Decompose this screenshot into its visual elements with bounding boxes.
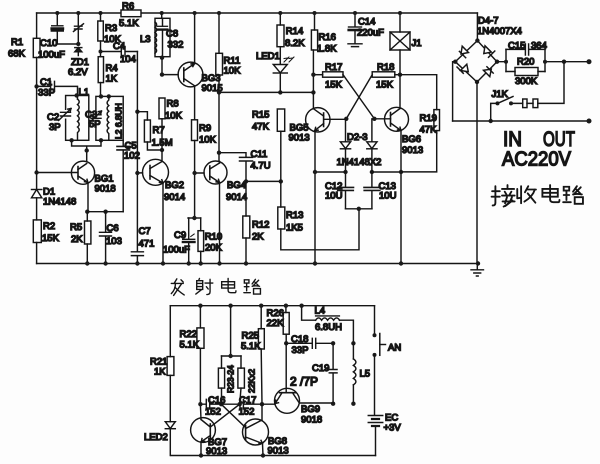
svg-text:2 /7P: 2 /7P bbox=[290, 375, 318, 389]
svg-text:R25: R25 bbox=[242, 331, 259, 342]
capacitor C17 bbox=[239, 395, 257, 418]
resistor R7 bbox=[135, 110, 173, 153]
svg-text:R7: R7 bbox=[153, 125, 165, 136]
svg-text:D2-3: D2-3 bbox=[347, 132, 368, 143]
svg-text:1N4148X2: 1N4148X2 bbox=[337, 157, 382, 168]
svg-text:471: 471 bbox=[139, 239, 155, 250]
resistor R22 bbox=[180, 304, 205, 405]
capacitor C5 bbox=[117, 140, 140, 211]
LED LED1 bbox=[256, 51, 294, 95]
capacitor C6 bbox=[100, 212, 122, 266]
transistor BG4 bbox=[192, 161, 247, 266]
svg-text:6.2V: 6.2V bbox=[68, 67, 88, 78]
svg-text:15K: 15K bbox=[325, 80, 343, 91]
svg-text:BG6: BG6 bbox=[402, 134, 421, 145]
svg-text:AN: AN bbox=[388, 343, 401, 354]
svg-text:R18: R18 bbox=[377, 62, 394, 73]
svg-text:1N4148: 1N4148 bbox=[43, 197, 76, 208]
svg-text:9013: 9013 bbox=[402, 145, 423, 156]
svg-text:R3: R3 bbox=[105, 23, 117, 34]
svg-text:R13: R13 bbox=[286, 210, 303, 221]
svg-text:R15: R15 bbox=[252, 110, 269, 121]
svg-text:AC220V: AC220V bbox=[502, 149, 572, 171]
transistor BG9 bbox=[275, 343, 334, 425]
resistor R3 bbox=[98, 13, 122, 57]
ground symbol bbox=[471, 264, 484, 277]
capacitor C12 bbox=[325, 172, 354, 209]
wire bridge bottom to ground rail bbox=[476, 82, 478, 264]
svg-text:C9: C9 bbox=[174, 230, 186, 241]
transistor BG5 bbox=[289, 108, 349, 266]
svg-text:1.8K: 1.8K bbox=[317, 44, 337, 55]
svg-text:C1: C1 bbox=[40, 77, 52, 88]
resistor R5 bbox=[70, 212, 91, 266]
resistor R2 bbox=[33, 220, 59, 244]
svg-text:BG4: BG4 bbox=[227, 180, 246, 191]
svg-text:332: 332 bbox=[168, 40, 184, 51]
pushbutton AN bbox=[373, 306, 402, 416]
character 电 bbox=[542, 185, 559, 202]
svg-text:L3: L3 bbox=[140, 34, 151, 45]
svg-text:47K: 47K bbox=[252, 122, 270, 133]
svg-text:R23-24: R23-24 bbox=[226, 365, 236, 393]
wire cross-coupling R17 to BG6 base bbox=[343, 75, 374, 119]
svg-text:15K: 15K bbox=[376, 80, 394, 91]
character 电 bbox=[222, 278, 236, 292]
svg-text:L2 6.8UH: L2 6.8UH bbox=[114, 103, 124, 139]
character 接 bbox=[492, 185, 515, 206]
capacitor C19 bbox=[290, 343, 337, 406]
svg-text:20K: 20K bbox=[205, 243, 223, 254]
svg-text:220uF: 220uF bbox=[357, 28, 384, 39]
resistor R26 bbox=[267, 304, 290, 344]
resistor R1 bbox=[8, 13, 40, 86]
resistor R21 bbox=[150, 306, 174, 422]
svg-text:C17: C17 bbox=[239, 395, 256, 406]
svg-text:22Kx2: 22Kx2 bbox=[247, 369, 257, 393]
svg-text:33P: 33P bbox=[38, 88, 55, 99]
label 发射电路 (transmitter circuit) bbox=[171, 278, 260, 295]
svg-text:300K: 300K bbox=[515, 76, 538, 87]
svg-text:LED1: LED1 bbox=[256, 51, 280, 62]
capacitor C7 bbox=[131, 173, 154, 266]
transistor BG7 bbox=[191, 404, 228, 457]
svg-text:L1: L1 bbox=[79, 87, 90, 98]
resistor R14 bbox=[277, 11, 305, 64]
capacitor C4 bbox=[99, 41, 138, 65]
capacitor C16 bbox=[205, 395, 225, 418]
capacitor C11 bbox=[217, 149, 271, 184]
resistor R9 bbox=[192, 120, 217, 218]
resistors R23-24 pair bbox=[218, 304, 256, 405]
svg-text:152: 152 bbox=[239, 407, 255, 418]
wire bridge left to lower out rail bbox=[453, 62, 456, 121]
wire multivibrator coupling row bbox=[198, 402, 274, 406]
svg-text:2K: 2K bbox=[252, 232, 264, 243]
svg-text:6.8UH: 6.8UH bbox=[315, 322, 342, 333]
svg-text:364: 364 bbox=[531, 41, 547, 52]
svg-text:C15: C15 bbox=[508, 41, 525, 52]
svg-text:4.7U: 4.7U bbox=[251, 161, 271, 172]
svg-text:9013: 9013 bbox=[289, 133, 310, 144]
svg-text:R17: R17 bbox=[325, 62, 342, 73]
svg-text:R2: R2 bbox=[43, 221, 55, 232]
svg-text:R22: R22 bbox=[180, 329, 197, 340]
character 收 bbox=[517, 186, 536, 203]
resistor R16 bbox=[311, 11, 337, 108]
svg-text:D4-7: D4-7 bbox=[478, 16, 499, 27]
tank L1 / C2 bbox=[47, 87, 89, 140]
svg-text:8.2K: 8.2K bbox=[285, 38, 305, 49]
resistor R18 bbox=[372, 62, 402, 91]
svg-text:R16: R16 bbox=[319, 32, 336, 43]
svg-text:2K: 2K bbox=[71, 234, 83, 245]
capacitor C13 bbox=[364, 172, 397, 209]
svg-text:103: 103 bbox=[106, 236, 122, 247]
svg-text:R4: R4 bbox=[106, 63, 118, 74]
diode D1 bbox=[32, 187, 77, 208]
svg-text:C19: C19 bbox=[312, 363, 329, 374]
wire C4 node down to BG2 base bbox=[136, 52, 138, 174]
svg-text:5.1K: 5.1K bbox=[241, 341, 261, 352]
svg-text:J1: J1 bbox=[412, 38, 422, 49]
svg-text:C7: C7 bbox=[139, 226, 151, 237]
svg-text:R5: R5 bbox=[70, 222, 82, 233]
svg-text:9013: 9013 bbox=[268, 446, 289, 457]
resistor R17 bbox=[311, 62, 343, 91]
wire lower out rail bbox=[453, 119, 592, 124]
wire left column bbox=[36, 86, 38, 263]
svg-text:LED2: LED2 bbox=[144, 432, 168, 443]
svg-text:R20: R20 bbox=[517, 57, 534, 68]
svg-text:+3V: +3V bbox=[384, 423, 402, 434]
tank L3 / C8 bbox=[140, 13, 183, 57]
wire BG1 emitter node bbox=[85, 210, 123, 214]
LED LED2 bbox=[144, 422, 175, 456]
svg-text:10U: 10U bbox=[325, 191, 343, 202]
svg-text:5P: 5P bbox=[89, 119, 101, 130]
transistor BG3 bbox=[178, 11, 223, 120]
wire top rail corner to bridge bbox=[476, 13, 478, 41]
capacitor C9 bbox=[163, 218, 195, 266]
svg-text:10K: 10K bbox=[199, 135, 217, 146]
transistor BG8 bbox=[243, 404, 289, 457]
wire tank outputs to BG1 collector bbox=[69, 138, 103, 161]
capacitor C9 and resistor R10 top bar bbox=[188, 216, 201, 220]
wire receiver ground rail bbox=[37, 263, 478, 265]
diode D2 bbox=[340, 119, 350, 174]
resistor R12 bbox=[243, 181, 270, 265]
svg-text:R9: R9 bbox=[199, 123, 211, 134]
capacitor C18 bbox=[284, 334, 335, 356]
svg-text:15K: 15K bbox=[42, 233, 60, 244]
resistor R10 bbox=[198, 218, 223, 266]
resistor R25 bbox=[241, 304, 264, 405]
svg-text:C8: C8 bbox=[166, 29, 178, 40]
inductor L5 bbox=[351, 343, 370, 406]
svg-text:R12: R12 bbox=[252, 220, 269, 231]
resistor R8 bbox=[159, 98, 183, 150]
character 发 bbox=[171, 279, 184, 296]
label 接收电路 (receiver circuit) bbox=[492, 185, 583, 206]
wire C12/C13 common tap bbox=[346, 207, 372, 211]
wire BG5 emitter to D2 node bbox=[315, 171, 346, 173]
zener diode ZD1 bbox=[68, 11, 89, 78]
svg-text:C10: C10 bbox=[40, 38, 57, 49]
character 路 bbox=[244, 279, 261, 294]
character 射 bbox=[196, 278, 213, 294]
transistor BG2 bbox=[135, 150, 185, 266]
svg-text:68K: 68K bbox=[8, 49, 26, 60]
svg-text:9013: 9013 bbox=[206, 446, 227, 457]
svg-text:10K: 10K bbox=[165, 111, 183, 122]
svg-text:R8: R8 bbox=[167, 99, 179, 110]
svg-text:C16: C16 bbox=[208, 395, 225, 406]
tank L2 / C3 bbox=[85, 94, 124, 140]
svg-text:C14: C14 bbox=[358, 17, 375, 28]
svg-text:100uF: 100uF bbox=[163, 245, 190, 256]
resistor R13 bbox=[278, 181, 359, 249]
capacitor C15 / resistor R20 block bbox=[497, 41, 592, 88]
wire D3 node to BG6 emitter bbox=[372, 171, 401, 173]
svg-text:BG9: BG9 bbox=[301, 404, 320, 415]
svg-text:10U: 10U bbox=[379, 191, 397, 202]
resistor R19 bbox=[400, 75, 440, 172]
capacitor C14 bbox=[348, 11, 384, 47]
wire R11 node across to BG5 collector bbox=[217, 90, 316, 94]
bridge rectifier D4-7 bbox=[453, 16, 522, 85]
wire cross-coupling R18 to BG5 base bbox=[346, 75, 372, 119]
wire C8 tank to BG3 base bbox=[160, 56, 178, 77]
svg-text:J1K: J1K bbox=[492, 89, 509, 100]
svg-text:C4: C4 bbox=[113, 41, 125, 52]
svg-text:BG2: BG2 bbox=[165, 180, 184, 191]
svg-text:1.5M: 1.5M bbox=[152, 138, 173, 149]
battery EC bbox=[368, 413, 401, 456]
svg-text:9018: 9018 bbox=[301, 415, 322, 426]
svg-text:R10: R10 bbox=[205, 232, 222, 243]
wire cross-coupling C17 to BG7 base bbox=[211, 404, 240, 426]
svg-text:3P: 3P bbox=[49, 122, 61, 133]
svg-text:1K5: 1K5 bbox=[286, 223, 303, 234]
svg-text:9014: 9014 bbox=[226, 192, 247, 203]
wire top supply rail bbox=[37, 12, 478, 14]
character 路 bbox=[563, 186, 583, 204]
diode D3 bbox=[337, 119, 382, 174]
resistor R4 bbox=[98, 57, 118, 97]
svg-text:L4: L4 bbox=[315, 306, 326, 317]
svg-text:C18: C18 bbox=[291, 334, 308, 345]
svg-text:5.1K: 5.1K bbox=[119, 18, 139, 29]
svg-text:R14: R14 bbox=[286, 26, 303, 37]
svg-text:C6: C6 bbox=[107, 223, 119, 234]
svg-text:R6: R6 bbox=[122, 1, 134, 12]
svg-text:104: 104 bbox=[120, 54, 136, 65]
wire transmitter top rail bbox=[170, 305, 374, 307]
resistor R15 bbox=[246, 109, 285, 184]
capacitor C10 bbox=[38, 11, 78, 61]
svg-text:C11: C11 bbox=[251, 149, 268, 160]
svg-text:L5: L5 bbox=[360, 369, 371, 380]
resistor R6 bbox=[99, 1, 164, 29]
svg-text:33P: 33P bbox=[292, 345, 309, 356]
wire transmitter ground rail bbox=[171, 455, 375, 457]
transistor BG1 bbox=[34, 161, 115, 212]
svg-text:5.1K: 5.1K bbox=[180, 340, 200, 351]
capacitor C1 bbox=[34, 77, 77, 99]
transistor BG6 bbox=[372, 75, 423, 266]
resistor R11 bbox=[216, 11, 241, 161]
svg-text:9014: 9014 bbox=[164, 192, 185, 203]
svg-text:1N4007X4: 1N4007X4 bbox=[477, 26, 522, 37]
relay coil J1 bbox=[390, 11, 422, 75]
inductor L4 bbox=[299, 304, 355, 346]
svg-text:10K: 10K bbox=[224, 66, 242, 77]
svg-text:100uF: 100uF bbox=[38, 50, 65, 61]
svg-text:47K: 47K bbox=[420, 125, 438, 136]
switch J1K and relay contacts bbox=[491, 62, 564, 121]
svg-text:22K: 22K bbox=[267, 318, 285, 329]
svg-text:1K: 1K bbox=[106, 74, 118, 85]
svg-text:R1: R1 bbox=[11, 37, 23, 48]
wire cross-coupling C16 to BG8 base bbox=[221, 404, 245, 427]
svg-text:9018: 9018 bbox=[95, 184, 116, 195]
svg-text:1K: 1K bbox=[154, 367, 166, 378]
svg-text:R19: R19 bbox=[420, 113, 437, 124]
svg-text:152: 152 bbox=[205, 407, 221, 418]
